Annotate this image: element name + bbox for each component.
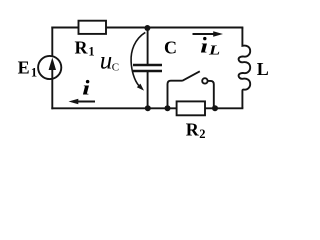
inductor L with right-side wire [239,28,251,109]
svg-text:1: 1 [31,66,37,80]
svg-text:1: 1 [88,45,94,59]
capacitor C [133,65,162,71]
svg-text:L: L [208,44,221,58]
switch S [168,71,214,108]
resistor R1 [79,21,107,34]
wire capacitor branch [147,28,149,109]
wire top [52,27,242,29]
svg-text:C: C [164,37,177,57]
svg-text:R: R [186,120,200,140]
svg-text:C: C [112,62,119,74]
svg-text:R: R [75,37,89,57]
arrow i (bottom left) [69,99,96,104]
svg-text:u: u [100,48,113,75]
svg-text:L: L [257,59,269,79]
node top (C junction) [144,25,150,31]
resistor R2 [177,101,205,115]
arrow uC (voltage arc) [131,32,145,90]
arrow iL (top right) [193,31,224,36]
wire left [51,28,53,109]
node bottom switch-left [165,105,171,111]
node bottom C [145,105,151,111]
source E1 [38,56,61,79]
wire bottom [52,107,242,109]
svg-text:E: E [18,58,30,78]
node bottom switch-right [212,105,218,111]
svg-text:2: 2 [199,127,205,141]
